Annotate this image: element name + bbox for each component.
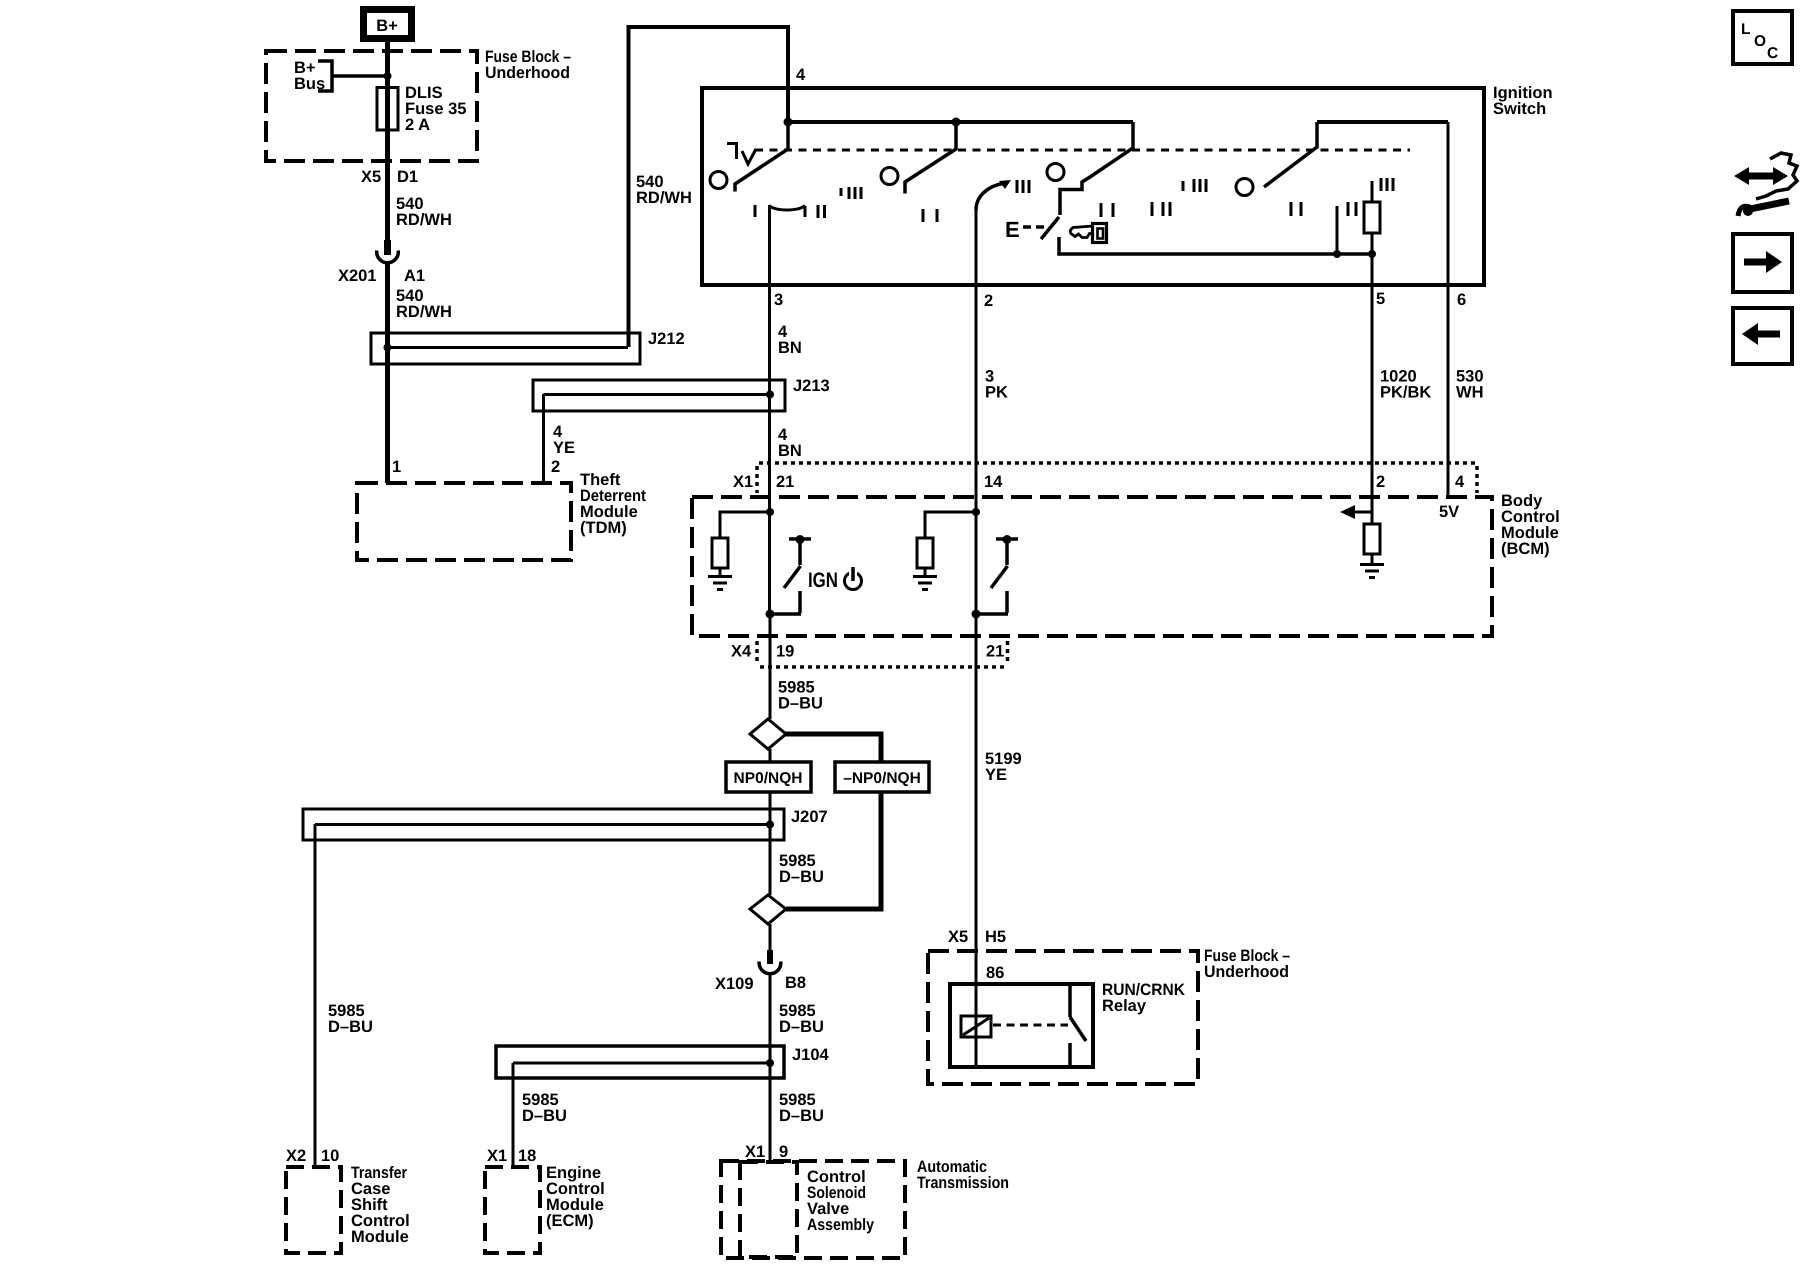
- ignition switch: position dashed line: [755, 149, 1410, 152]
- svg-text:PK/BK: PK/BK: [1380, 384, 1431, 402]
- wire: diamond2 down to X109 stub: [769, 924, 772, 951]
- svg-text:X2: X2: [286, 1147, 306, 1165]
- svg-text:X1: X1: [733, 473, 753, 491]
- svg-text:YE: YE: [985, 766, 1007, 784]
- battery B+ terminal box: [364, 10, 412, 39]
- theft deterrent module TDM dashed box: [357, 483, 571, 560]
- svg-text:D–BU: D–BU: [779, 1107, 824, 1125]
- svg-text:L: L: [1741, 21, 1750, 38]
- ignition switch: switch1 contact circle: [710, 172, 727, 189]
- relay coil RUN/CRNK: [961, 1016, 991, 1037]
- icon: LOC box top right: [1733, 11, 1792, 64]
- ignition switch: ticks group right of switch1: [841, 187, 861, 199]
- svg-text:RD/WH: RD/WH: [636, 189, 692, 207]
- wire: ignition switch pin 2 output 3 PK: [975, 206, 978, 614]
- wire: J212 to ignition switch top link: [629, 27, 789, 347]
- svg-text:Bus: Bus: [294, 75, 325, 93]
- relay contact: [1070, 984, 1086, 1067]
- icon: harness scribble with double arrow: [1746, 173, 1776, 180]
- svg-text:(BCM): (BCM): [1501, 540, 1550, 558]
- resistor BCM ch21: [712, 538, 728, 568]
- svg-text:(TDM): (TDM): [580, 519, 627, 537]
- svg-text:Switch: Switch: [1493, 100, 1546, 118]
- icon: back arrow box: [1733, 308, 1792, 364]
- svg-text:Module: Module: [351, 1228, 409, 1246]
- ignition switch: switch2 blade: [905, 122, 956, 194]
- svg-text:WH: WH: [1456, 384, 1484, 402]
- BCM channel 21: junction dot: [766, 508, 774, 516]
- fuse block underhood dashed box (relay): [928, 951, 1198, 1084]
- BCM power icon: [845, 573, 862, 590]
- automatic transmission outer dashed box: [721, 1161, 905, 1258]
- ignition switch: switch3 contact circle: [1047, 164, 1064, 181]
- body control module BCM dashed box: [692, 497, 1492, 636]
- ignition switch: internal bus left segment: [788, 120, 1133, 124]
- splice pack J213: [533, 380, 785, 411]
- svg-text:J212: J212: [648, 330, 685, 348]
- svg-text:X201: X201: [338, 267, 377, 285]
- node: B+ bus junction: [384, 72, 392, 80]
- node: BCM ch21 lower junction: [766, 610, 775, 619]
- wire: BCM pin 19 to splice diamond 5985 D-BU: [769, 613, 772, 719]
- ignition switch: lock position mark: [727, 144, 756, 165]
- BCM channel 14: pull resistor tap: [925, 512, 976, 575]
- svg-text:Underhood: Underhood: [1204, 963, 1289, 981]
- ignition switch: switch4 blade to pin6: [1264, 122, 1317, 187]
- svg-text:NP0/NQH: NP0/NQH: [734, 770, 803, 787]
- svg-text:10: 10: [321, 1147, 339, 1165]
- splice pack J212: [371, 333, 640, 364]
- connector X201 male stub: [385, 240, 390, 252]
- svg-text:5V: 5V: [1439, 503, 1459, 521]
- splice diamond S2: [750, 895, 786, 924]
- svg-text:6: 6: [1457, 291, 1466, 309]
- BCM IGN switch: blade: [784, 566, 801, 588]
- connector X4 dotted strip: [757, 641, 1008, 667]
- svg-text:X5: X5: [948, 928, 968, 946]
- svg-text:21: 21: [986, 643, 1004, 661]
- BCM channel 2: resistor to ground: [1371, 512, 1374, 563]
- svg-text:Assembly: Assembly: [807, 1216, 875, 1234]
- ignition switch: switch3 lower contact path: [1059, 237, 1372, 254]
- ignition switch: switch4 contact circle: [1236, 179, 1253, 196]
- node: junction dots on lower contact line: [1333, 250, 1341, 258]
- ignition switch: switch1 detent ticks II: [818, 205, 825, 218]
- BCM switch ch14: blade: [991, 566, 1008, 588]
- svg-text:C: C: [1767, 45, 1778, 62]
- svg-text:3: 3: [774, 291, 783, 309]
- svg-text:B+: B+: [376, 17, 398, 35]
- BCM IGN switch: top contact: [789, 539, 811, 565]
- ground BCM ch14: [913, 577, 937, 590]
- svg-text:19: 19: [776, 643, 794, 661]
- svg-text:14: 14: [984, 473, 1003, 491]
- svg-text:A1: A1: [404, 267, 425, 285]
- wire: J104 left drop to ECM 5985 D-BU: [512, 1063, 515, 1167]
- wire: ignition switch pin 6 output 530 WH: [1447, 122, 1450, 495]
- ignition switch: bus junction dot switch2: [952, 118, 961, 127]
- svg-text:2: 2: [551, 458, 560, 476]
- svg-text:J213: J213: [793, 377, 830, 395]
- connector X201 female arc: [377, 251, 399, 263]
- svg-text:2: 2: [984, 292, 993, 310]
- wire: J207 left drop to transfer case 5985 D-BU: [314, 824, 317, 1167]
- ignition switch: stub line with ticks II: [1336, 206, 1339, 254]
- BCM channel 21: pull resistor tap: [720, 512, 770, 575]
- svg-text:X5: X5: [361, 168, 381, 186]
- svg-text:D–BU: D–BU: [522, 1107, 567, 1125]
- svg-text:IGN: IGN: [808, 569, 838, 592]
- svg-text:21: 21: [776, 473, 794, 491]
- ignition switch: E position label dashes: [1023, 225, 1044, 229]
- B+ bus bracket: [318, 61, 332, 91]
- ignition switch: switch2 contact circle: [881, 168, 898, 185]
- ignition switch: pin2 wiper curve with ticks: [976, 184, 1003, 211]
- svg-text:18: 18: [518, 1147, 536, 1165]
- splice diamond S1: [750, 719, 786, 749]
- ignition switch: resistor ticks III: [1381, 178, 1393, 191]
- wire: -NP0/NQH thick branch lower: [786, 790, 881, 909]
- fuse block underhood dashed box (top): [266, 51, 477, 161]
- node: BCM ch14 lower junction: [972, 610, 981, 619]
- wire: X109 male stub: [767, 950, 773, 964]
- connector X1 dotted strip: [757, 463, 1477, 493]
- svg-text:Transmission: Transmission: [917, 1174, 1009, 1192]
- BCM IGN switch: lower contact L: [770, 591, 801, 614]
- svg-text:RD/WH: RD/WH: [396, 211, 452, 229]
- svg-text:86: 86: [986, 964, 1004, 982]
- resistor BCM ch2: [1364, 524, 1380, 554]
- connector X109 female arc: [759, 962, 781, 974]
- relay actuation dashed link: [993, 1024, 1068, 1027]
- ignition switch: internal bus right segment: [1317, 120, 1448, 124]
- svg-text:2 A: 2 A: [405, 116, 430, 134]
- svg-text:X1: X1: [745, 1143, 765, 1161]
- ignition switch: ticks group mid: [1101, 202, 1301, 217]
- wire: B+ Bus tap horizontal: [332, 74, 387, 78]
- svg-text:PK: PK: [985, 384, 1008, 402]
- fuse DLIS Fuse 35 2A: [377, 88, 398, 131]
- ignition switch: switch2 detent ticks: [923, 209, 937, 222]
- svg-text:BN: BN: [778, 339, 802, 357]
- svg-text:D1: D1: [397, 168, 418, 186]
- splice box -NP0/NQH: [835, 762, 929, 792]
- svg-text:X109: X109: [715, 975, 754, 993]
- svg-text:–NP0/NQH: –NP0/NQH: [843, 770, 921, 787]
- ignition switch: switch3 upper contact path: [1060, 122, 1133, 215]
- svg-text:4: 4: [796, 66, 806, 84]
- svg-text:Underhood: Underhood: [485, 64, 570, 82]
- svg-text:2: 2: [1376, 473, 1385, 491]
- engine control module ECM dashed box: [485, 1167, 540, 1253]
- wire: X109 to J104 to control solenoid valve 5985 D-BU: [769, 972, 772, 1162]
- ground BCM ch2: [1360, 565, 1384, 578]
- ignition switch: switch1 detent arc: [769, 206, 805, 218]
- relay coil wire through: [975, 1016, 978, 1067]
- svg-text:O: O: [1754, 33, 1766, 50]
- ignition switch solid box: [702, 88, 1484, 285]
- svg-text:J104: J104: [792, 1046, 830, 1064]
- wire: ignition switch pin 5 output 1020 PK/BK: [1371, 254, 1374, 512]
- BCM channel 2: internal arrow: [1352, 511, 1372, 514]
- svg-text:5: 5: [1376, 290, 1385, 308]
- resistor BCM ch14: [917, 538, 933, 568]
- icon: forward arrow box: [1733, 234, 1792, 292]
- wire: BCM pin 21 to relay coil 5199 YE: [975, 613, 978, 1016]
- svg-text:9: 9: [779, 1143, 788, 1161]
- wire: B+ feed 540 RD/WH main vertical: [385, 42, 390, 483]
- BCM switch ch14: lower contact L: [976, 591, 1008, 614]
- svg-text:1: 1: [392, 458, 401, 476]
- ignition switch: switch3 key blade: [1041, 217, 1059, 239]
- control solenoid valve assembly inner dashed box: [740, 1162, 797, 1257]
- svg-text:B8: B8: [785, 974, 806, 992]
- svg-text:E: E: [1005, 217, 1020, 242]
- svg-text:4: 4: [1455, 473, 1465, 491]
- svg-text:BN: BN: [778, 442, 802, 460]
- svg-text:Relay: Relay: [1102, 997, 1147, 1015]
- splice pack J207: [303, 809, 784, 840]
- transfer case shift control module dashed box: [286, 1167, 341, 1253]
- wire: NP0/NQH thick branch upper: [784, 734, 881, 764]
- svg-text:D–BU: D–BU: [778, 695, 823, 713]
- svg-text:YE: YE: [553, 439, 575, 457]
- wire: diamond1 to J207 to diamond2: [769, 749, 772, 895]
- svg-text:X1: X1: [487, 1147, 507, 1165]
- BCM switch ch14: top contact: [996, 539, 1018, 565]
- svg-text:D–BU: D–BU: [328, 1018, 373, 1036]
- svg-text:D–BU: D–BU: [779, 1018, 824, 1036]
- ignition switch: switch1 detent tick I: [754, 205, 757, 217]
- wire: J213 left drop to TDM pin 2: [542, 394, 545, 483]
- ignition switch: key icon: [1070, 224, 1106, 243]
- svg-text:X4: X4: [731, 643, 752, 661]
- svg-text:RD/WH: RD/WH: [396, 303, 452, 321]
- BCM channel 14: junction dot: [972, 508, 980, 516]
- resistor R ignition: [1364, 202, 1380, 233]
- splice box NP0/NQH: [726, 762, 811, 792]
- svg-text:J207: J207: [791, 808, 828, 826]
- wire: ignition switch pin 3 output 4 BN: [768, 205, 771, 614]
- svg-text:D–BU: D–BU: [779, 868, 824, 886]
- ignition switch: ticks group switch4: [1183, 179, 1206, 192]
- svg-text:H5: H5: [985, 928, 1006, 946]
- ignition switch: bus junction dot pin4: [784, 118, 793, 127]
- ignition switch: resistor branch wire: [1371, 181, 1374, 254]
- ignition switch: switch1 blade from pin4: [735, 122, 788, 192]
- splice pack J104: [496, 1046, 784, 1078]
- RUN/CRNK relay solid box: [950, 984, 1093, 1067]
- svg-text:(ECM): (ECM): [546, 1212, 594, 1230]
- ground BCM ch21: [708, 577, 732, 590]
